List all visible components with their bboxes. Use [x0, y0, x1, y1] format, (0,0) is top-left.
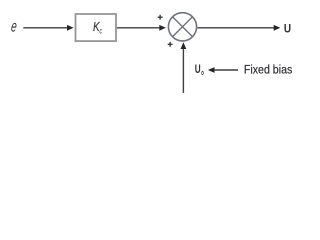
- svg-text:Fixed bias: Fixed bias: [244, 63, 292, 77]
- bias arrow wire: [214, 69, 238, 71]
- block Kc: [76, 14, 117, 41]
- summer circle U1: [168, 13, 196, 41]
- node e (input label): [10, 18, 18, 36]
- arrowhead into Kc: [67, 25, 74, 31]
- bias wire (vertical into summer): [182, 49, 184, 93]
- output wire: [197, 27, 275, 29]
- summer X diagonal 2: [173, 17, 193, 37]
- plus sign (bottom input): [168, 42, 173, 47]
- wire Kc to summer: [117, 27, 161, 29]
- bias arrowhead (points left at U0): [208, 67, 215, 73]
- summer X diagonal 1: [173, 17, 193, 37]
- svg-text:U: U: [195, 62, 201, 76]
- svg-text:o: o: [201, 68, 204, 77]
- plus sign (top input): [158, 15, 163, 20]
- wire e to Kc: [23, 27, 68, 29]
- arrowhead into summer: [159, 25, 166, 31]
- svg-text:U: U: [284, 22, 291, 36]
- output arrowhead: [274, 25, 281, 31]
- arrowhead up into summer: [181, 42, 187, 49]
